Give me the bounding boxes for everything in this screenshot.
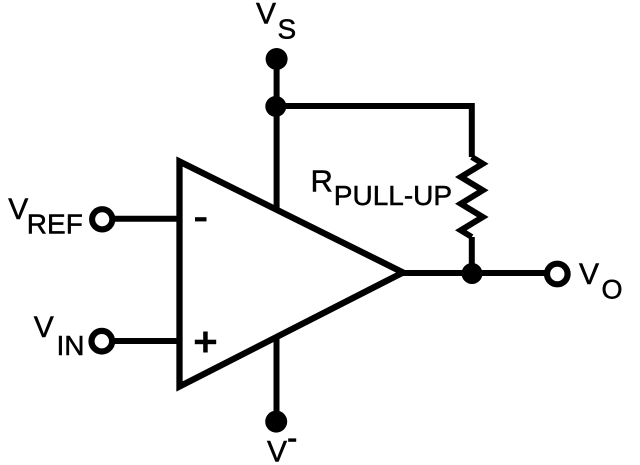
svg-text:V: V: [579, 258, 599, 291]
svg-text:V: V: [34, 311, 54, 344]
svg-text:V: V: [256, 0, 276, 31]
label VO: [579, 258, 623, 304]
label V- (negative supply): [267, 436, 296, 465]
terminal: VREF open circle: [92, 209, 112, 229]
wire: V- supply wire from comparator bottom edge down: [274, 328, 280, 422]
label VREF: [8, 193, 83, 239]
node: V- terminal dot: [265, 411, 287, 433]
non-inverting input plus symbol: [195, 332, 216, 353]
wire: VREF input wire: [106, 216, 181, 222]
label RPULL-UP: [311, 164, 453, 212]
label VS: [256, 0, 296, 45]
op-amp comparator triangle: [180, 162, 404, 387]
wire: output wire from comparator tip to VO terminal: [398, 270, 546, 276]
svg-text:R: R: [311, 164, 333, 199]
node: supply rail junction dot: [265, 96, 286, 117]
inverting input minus symbol: [195, 217, 207, 221]
svg-text:REF: REF: [27, 208, 83, 239]
terminal: VIN open circle: [92, 331, 113, 352]
node: output junction dot: [462, 263, 483, 284]
svg-text:O: O: [602, 274, 623, 304]
wire: top rail from supply node right to pull-up resistor, with resistor leads: [277, 106, 472, 157]
svg-text:V: V: [267, 436, 287, 465]
terminal: VO open circle: [547, 264, 568, 285]
resistor RPULL-UP zigzag body: [461, 157, 483, 237]
svg-text:IN: IN: [57, 330, 85, 361]
svg-text:S: S: [278, 14, 297, 45]
wire: V_S supply wire down to comparator top edge: [274, 59, 280, 214]
node: VS terminal dot: [266, 48, 288, 70]
svg-text:V: V: [8, 193, 28, 226]
wire: VIN input wire: [106, 338, 181, 344]
label VIN: [34, 311, 85, 361]
svg-text:PULL-UP: PULL-UP: [334, 180, 452, 211]
wire: resistor bottom lead to output node: [469, 237, 475, 274]
